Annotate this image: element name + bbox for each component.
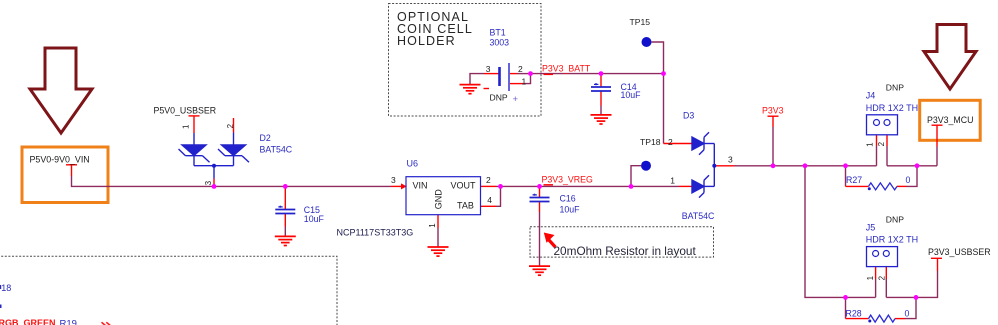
svg-text:+: +: [513, 94, 519, 105]
svg-text:NCP1117ST33T3G: NCP1117ST33T3G: [337, 227, 414, 237]
svg-text:J4: J4: [866, 91, 876, 101]
svg-text:GND: GND: [434, 189, 444, 210]
svg-text:DNP: DNP: [886, 83, 904, 93]
svg-text:3: 3: [204, 180, 213, 185]
svg-text:2: 2: [486, 175, 491, 185]
svg-text:1: 1: [428, 223, 437, 228]
svg-text:10uF: 10uF: [560, 204, 581, 214]
svg-text:1: 1: [670, 175, 675, 185]
svg-text:R28: R28: [846, 309, 862, 319]
svg-text:VOUT: VOUT: [451, 181, 477, 191]
svg-text:1: 1: [182, 124, 191, 129]
svg-text:P5V0-9V0_VIN: P5V0-9V0_VIN: [30, 154, 90, 164]
svg-text:U6: U6: [407, 158, 419, 168]
svg-text:DNP: DNP: [490, 92, 508, 102]
svg-text:HDR 1X2 TH: HDR 1X2 TH: [866, 234, 918, 244]
svg-text:R27: R27: [846, 175, 862, 185]
svg-text:TP18: TP18: [640, 137, 661, 147]
svg-text:BAT54C: BAT54C: [260, 145, 293, 155]
svg-text:P3V3: P3V3: [762, 105, 784, 115]
svg-text:RGB_GREEN: RGB_GREEN: [0, 318, 56, 325]
svg-text:3: 3: [728, 154, 733, 164]
svg-text:10uF: 10uF: [621, 90, 642, 100]
svg-text:2: 2: [668, 137, 673, 147]
svg-text:1: 1: [522, 76, 527, 86]
svg-text:P3V3_USBSER: P3V3_USBSER: [928, 247, 991, 257]
svg-text:P3V3_BATT: P3V3_BATT: [542, 64, 591, 74]
svg-text:0: 0: [906, 175, 911, 185]
svg-text:2: 2: [226, 123, 235, 128]
svg-text:10uF: 10uF: [304, 214, 325, 224]
svg-text:4: 4: [487, 195, 492, 205]
svg-text:C16: C16: [560, 194, 576, 204]
svg-text:3003: 3003: [490, 38, 510, 48]
svg-text:VIN: VIN: [413, 181, 428, 191]
svg-text:2: 2: [518, 64, 523, 74]
svg-text:P3V3_MCU: P3V3_MCU: [927, 115, 973, 125]
svg-text:DNP: DNP: [886, 214, 904, 224]
svg-text:P5V0_USBSER: P5V0_USBSER: [154, 105, 217, 115]
svg-text:20mOhm Resistor in layout: 20mOhm Resistor in layout: [554, 244, 697, 258]
svg-text:18: 18: [1, 283, 11, 293]
svg-text:J5: J5: [866, 222, 876, 232]
svg-text:TAB: TAB: [457, 201, 474, 211]
svg-text:1: 1: [866, 142, 875, 147]
svg-text:1: 1: [866, 275, 875, 280]
svg-text:TP15: TP15: [630, 17, 651, 27]
svg-text:3: 3: [391, 175, 396, 185]
svg-text:2: 2: [877, 141, 886, 146]
svg-text:D2: D2: [260, 133, 271, 143]
svg-text:2: 2: [878, 275, 887, 280]
svg-text:P3V3_VREG: P3V3_VREG: [542, 175, 593, 185]
svg-text:R19: R19: [60, 319, 77, 325]
svg-text:BT1: BT1: [490, 28, 506, 38]
svg-text:D3: D3: [683, 111, 694, 121]
svg-text:3: 3: [486, 64, 491, 74]
svg-text:0: 0: [905, 309, 910, 319]
svg-text:BAT54C: BAT54C: [682, 211, 715, 221]
svg-text:HDR 1X2 TH: HDR 1X2 TH: [866, 103, 918, 113]
svg-text:HOLDER: HOLDER: [397, 34, 456, 48]
